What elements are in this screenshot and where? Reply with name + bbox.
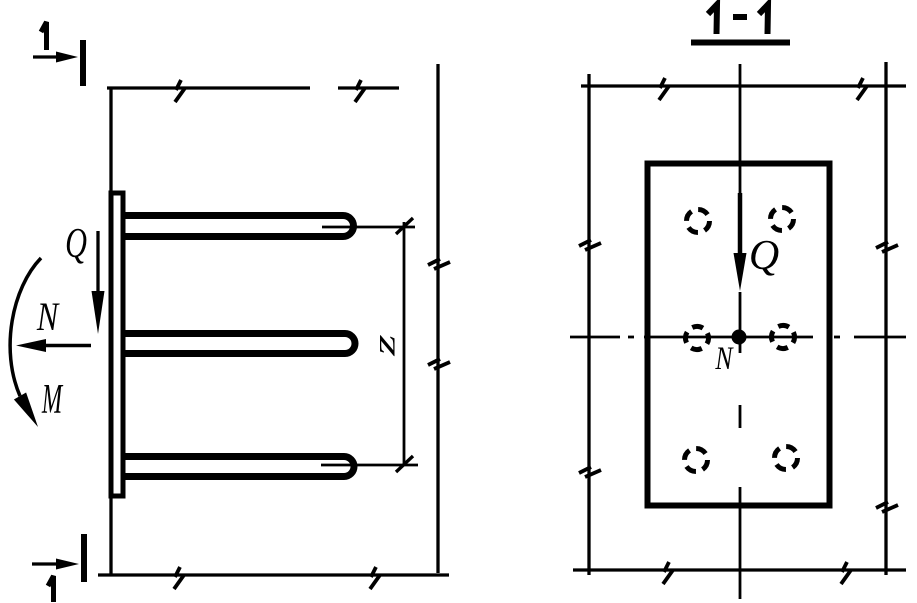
- svg-text:Q: Q: [749, 233, 779, 279]
- svg-text:N: N: [715, 341, 735, 377]
- svg-text:Q: Q: [65, 219, 87, 266]
- svg-text:z: z: [366, 334, 401, 356]
- svg-text:N: N: [36, 295, 60, 339]
- svg-text:M: M: [41, 376, 64, 422]
